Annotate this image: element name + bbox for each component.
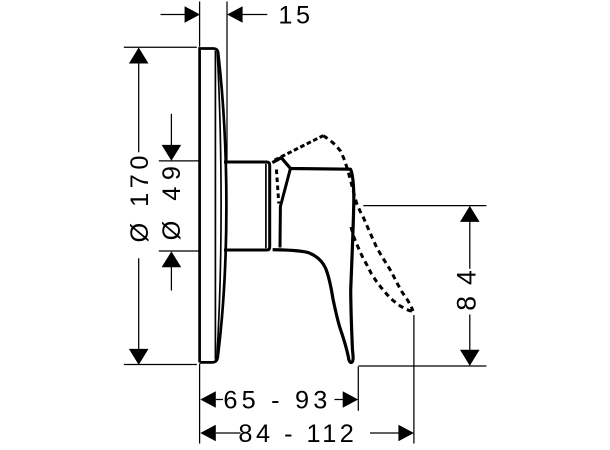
extension line left (plate face / bottom dims) — [199, 2, 201, 444]
dim 84-112 line — [216, 432, 399, 434]
arrowhead 170 bottom — [129, 349, 149, 365]
dashed lever top edge — [275, 136, 324, 161]
arrowhead 84-112 right — [398, 425, 414, 441]
dim 65-93 line — [216, 399, 344, 401]
arrowhead 15 left — [185, 6, 201, 22]
dim 84 bottom extension — [358, 365, 486, 367]
dashed lever right edge — [323, 136, 413, 311]
dashed collar hidden edge — [276, 170, 278, 204]
svg-text:Ø 49: Ø 49 — [158, 160, 186, 241]
extension line 15 right — [226, 2, 228, 162]
arrowhead 84 bottom — [460, 350, 480, 366]
dim 170 top extension — [124, 46, 197, 48]
dim 15 line left — [161, 14, 187, 16]
dashed lever underside edge — [351, 227, 413, 311]
arrowhead 65-93 left — [200, 391, 216, 407]
hub cap inner line — [265, 164, 267, 248]
dim 49 top extension — [159, 160, 199, 162]
dim 170 bottom extension — [124, 364, 197, 366]
extension line solid lever tip — [357, 367, 359, 411]
dim 84 top extension — [363, 205, 486, 207]
arrowhead 15 right — [227, 6, 243, 22]
dim 84 line — [469, 207, 471, 366]
dim 49 line segments — [170, 114, 172, 291]
dim 15 line right — [241, 14, 267, 16]
arrowhead 170 top — [129, 48, 149, 64]
dim 49 bottom extension — [159, 250, 199, 252]
svg-text:84 - 112: 84 - 112 — [238, 420, 357, 448]
arrowhead 84 top — [460, 206, 480, 222]
extension line dashed lever tip — [413, 315, 415, 444]
hub cylinder — [224, 162, 270, 250]
escutcheon plate outline — [200, 49, 227, 363]
svg-text:15: 15 — [278, 2, 313, 30]
dim 170 line — [138, 48, 140, 364]
svg-text:Ø 170: Ø 170 — [126, 151, 154, 242]
svg-text:84: 84 — [452, 259, 482, 310]
plate rim line — [214, 51, 216, 360]
lever collar front edge — [280, 169, 290, 248]
arrowhead 84-112 left — [200, 425, 216, 441]
plate face inner arc — [217, 52, 221, 359]
lever handle outline — [272, 158, 354, 363]
arrowhead 49 top — [162, 145, 182, 161]
arrowhead 49 bottom — [162, 251, 182, 267]
svg-text:65 - 93: 65 - 93 — [223, 387, 331, 415]
arrowhead 65-93 right — [343, 391, 359, 407]
